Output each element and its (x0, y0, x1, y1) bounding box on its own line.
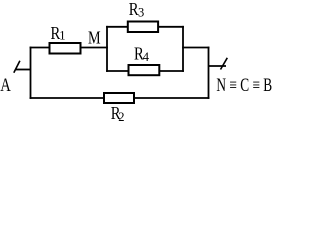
terminal N slash (221, 58, 228, 70)
wire right bus vertical (182, 26, 184, 72)
svg-text:1: 1 (59, 29, 65, 43)
svg-text:3: 3 (138, 6, 144, 20)
resistor R2 (104, 93, 134, 103)
wire R3 branch (106, 26, 184, 28)
resistor R3 (128, 22, 158, 33)
wire right vertical (208, 47, 210, 99)
svg-text:A: A (0, 75, 11, 96)
resistor R4 (129, 65, 160, 75)
wire middle vertical (106, 26, 108, 72)
svg-text:M: M (88, 28, 101, 48)
wire bottom (30, 97, 210, 99)
terminal A lead (15, 69, 31, 71)
svg-text:4: 4 (143, 50, 150, 64)
svg-text:2: 2 (118, 110, 124, 124)
wire left vertical (30, 47, 32, 99)
resistor R1 (50, 43, 81, 54)
terminal N lead (209, 65, 227, 67)
svg-text:N ≡ C ≡ B: N ≡ C ≡ B (216, 76, 272, 96)
wire R4 branch (106, 70, 184, 72)
terminal A slash (14, 61, 20, 73)
wire R1 branch (30, 47, 108, 49)
wire output (182, 47, 209, 49)
